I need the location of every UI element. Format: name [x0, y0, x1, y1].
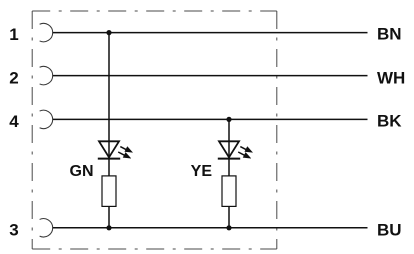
wire 4 (BK) [53, 118, 368, 120]
junction dot: wire 3 / YE branch [226, 225, 231, 230]
svg-text:BK: BK [377, 111, 402, 130]
junction dot: wire 3 / GN branch [106, 225, 111, 230]
wire label BN [377, 25, 402, 44]
svg-text:4: 4 [9, 112, 19, 131]
wire: vertical branch from wire 4 to wire 3 (YE LED branch) [228, 119, 230, 227]
wire 1 (BN) [53, 32, 368, 34]
svg-text:GN: GN [70, 163, 94, 180]
wire: vertical branch from wire 1 to wire 3 (GN LED branch) [108, 33, 110, 228]
wire 2 (WH) [53, 75, 368, 77]
junction dot: wire 4 / YE branch [226, 117, 231, 122]
svg-text:3: 3 [9, 221, 18, 240]
pin 4 label "4" [9, 112, 19, 131]
wire label BU [377, 220, 402, 239]
wire label WH [377, 68, 405, 87]
resistor (YE branch) [222, 176, 236, 207]
pin 4 contact [40, 110, 53, 128]
connector housing outline (dash-dot boundary) [32, 11, 277, 249]
LED GN (triangle, cathode bar, emission arrows) [98, 141, 133, 158]
svg-text:YE: YE [191, 163, 213, 180]
pin 1 contact [40, 23, 53, 41]
pin 3 label "3" [9, 221, 18, 240]
pin 3 contact [40, 219, 53, 237]
svg-text:WH: WH [377, 68, 405, 87]
wire label BK [377, 111, 402, 130]
svg-text:BN: BN [377, 25, 402, 44]
svg-text:1: 1 [9, 25, 18, 44]
LED label GN [70, 163, 94, 180]
junction dot: wire 1 / GN branch [106, 30, 111, 35]
wire 3 (BU) [53, 227, 368, 229]
pin 2 label "2" [9, 68, 18, 87]
resistor (GN branch) [102, 176, 116, 207]
LED label YE [191, 163, 213, 180]
svg-text:2: 2 [9, 68, 18, 87]
pin 2 contact [40, 66, 53, 84]
svg-text:BU: BU [377, 220, 402, 239]
LED YE (triangle, cathode bar, emission arrows) [218, 141, 253, 158]
pin 1 label "1" [9, 25, 18, 44]
